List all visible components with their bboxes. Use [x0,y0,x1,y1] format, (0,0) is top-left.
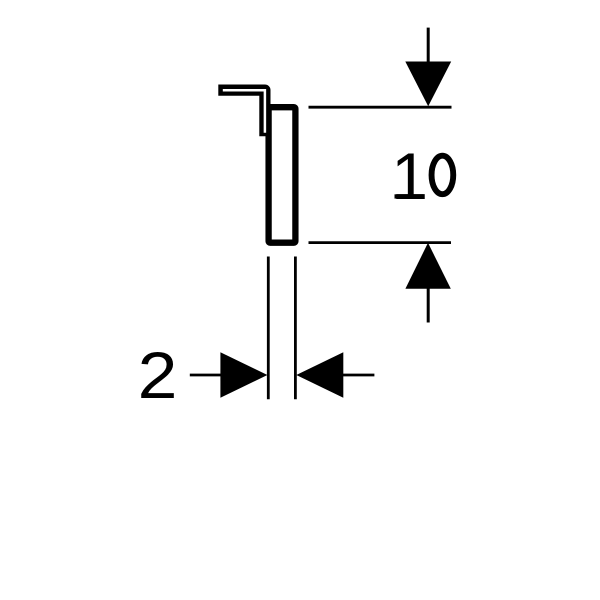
arrow left tail (2) [190,374,221,377]
svg-text:2: 2 [138,338,178,412]
arrow top tail [427,28,430,63]
svg-text:1: 1 [391,139,428,213]
lip strip outline (thin L-shaped flange, black outer) [224,90,265,131]
profile body (vertical rectangle of sealing strip cross-section) [269,107,296,243]
extension line left (2) [267,257,270,400]
digit 0 of label 10 [432,156,454,195]
arrow right tail (2) [343,374,374,377]
arrow right head (pointing left) [296,352,343,397]
arrow bottom tail [427,289,430,323]
dimension line bottom (10) [309,241,452,244]
arrow left head (pointing right) [220,352,267,397]
extension line right (2) [294,257,297,400]
dimension line top (10) [309,106,452,109]
serif foot of digit 1 [395,194,424,198]
lip strip core (thin white inner of flange) [223,90,265,133]
arrow top head (pointing down) [405,62,451,107]
arrow bottom head (pointing up) [405,243,450,289]
